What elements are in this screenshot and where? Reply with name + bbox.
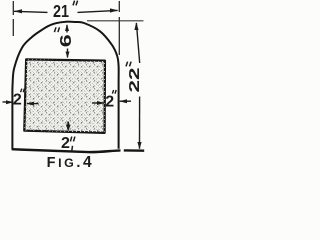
left 2in inside arrow (points left at square edge)	[27, 103, 39, 105]
svg-text:6: 6	[58, 34, 75, 47]
right 2in inch ticks	[112, 90, 116, 94]
svg-text:2: 2	[13, 92, 22, 109]
22in dimension line lower segment with down arrow	[139, 97, 141, 149]
6in dimension line lower segment with down arrow	[67, 49, 69, 58]
6in dimension line upper segment with up arrow	[66, 25, 68, 33]
21in inch ticks	[73, 1, 78, 6]
inner square (stippled)	[24, 59, 105, 132]
svg-text:22: 22	[126, 68, 143, 93]
svg-text:21: 21	[53, 1, 69, 21]
22in top extension line	[87, 20, 144, 22]
left 2in inch ticks	[21, 89, 25, 93]
left 2in outside arrow (points right at wall)	[3, 101, 13, 103]
right 2in outside arrow (points left at wall)	[120, 100, 131, 102]
svg-text:FIG.4: FIG.4	[47, 154, 95, 171]
svg-text:2: 2	[61, 135, 70, 152]
22in dimension line upper segment with up arrow	[136, 23, 139, 63]
svg-text:2: 2	[105, 94, 114, 111]
bottom line of shape extended right (22in extension)	[12, 149, 145, 152]
bottom 2in down arrow (tip at square bottom)	[67, 122, 69, 130]
small tick crossing bottom line near 2in text	[71, 146, 74, 152]
22in dimension text (rotated, reads bottom-up)	[126, 62, 143, 93]
outer tombstone outline	[12, 22, 118, 150]
21in left extension line	[12, 1, 14, 36]
paper background	[0, 0, 149, 174]
6in inch ticks	[54, 27, 59, 32]
6in dimension text (rotated, reads bottom-up)	[54, 27, 75, 47]
21in dimension line right segment with right-pointing arrow	[78, 10, 118, 12]
22in inch ticks	[126, 62, 131, 67]
bottom 2in inch ticks	[70, 137, 75, 142]
right 2in inside arrow (points right at square edge)	[92, 102, 104, 104]
21in dimension line left segment with left-pointing arrow	[14, 11, 48, 12]
21in right extension line	[118, 1, 120, 55]
